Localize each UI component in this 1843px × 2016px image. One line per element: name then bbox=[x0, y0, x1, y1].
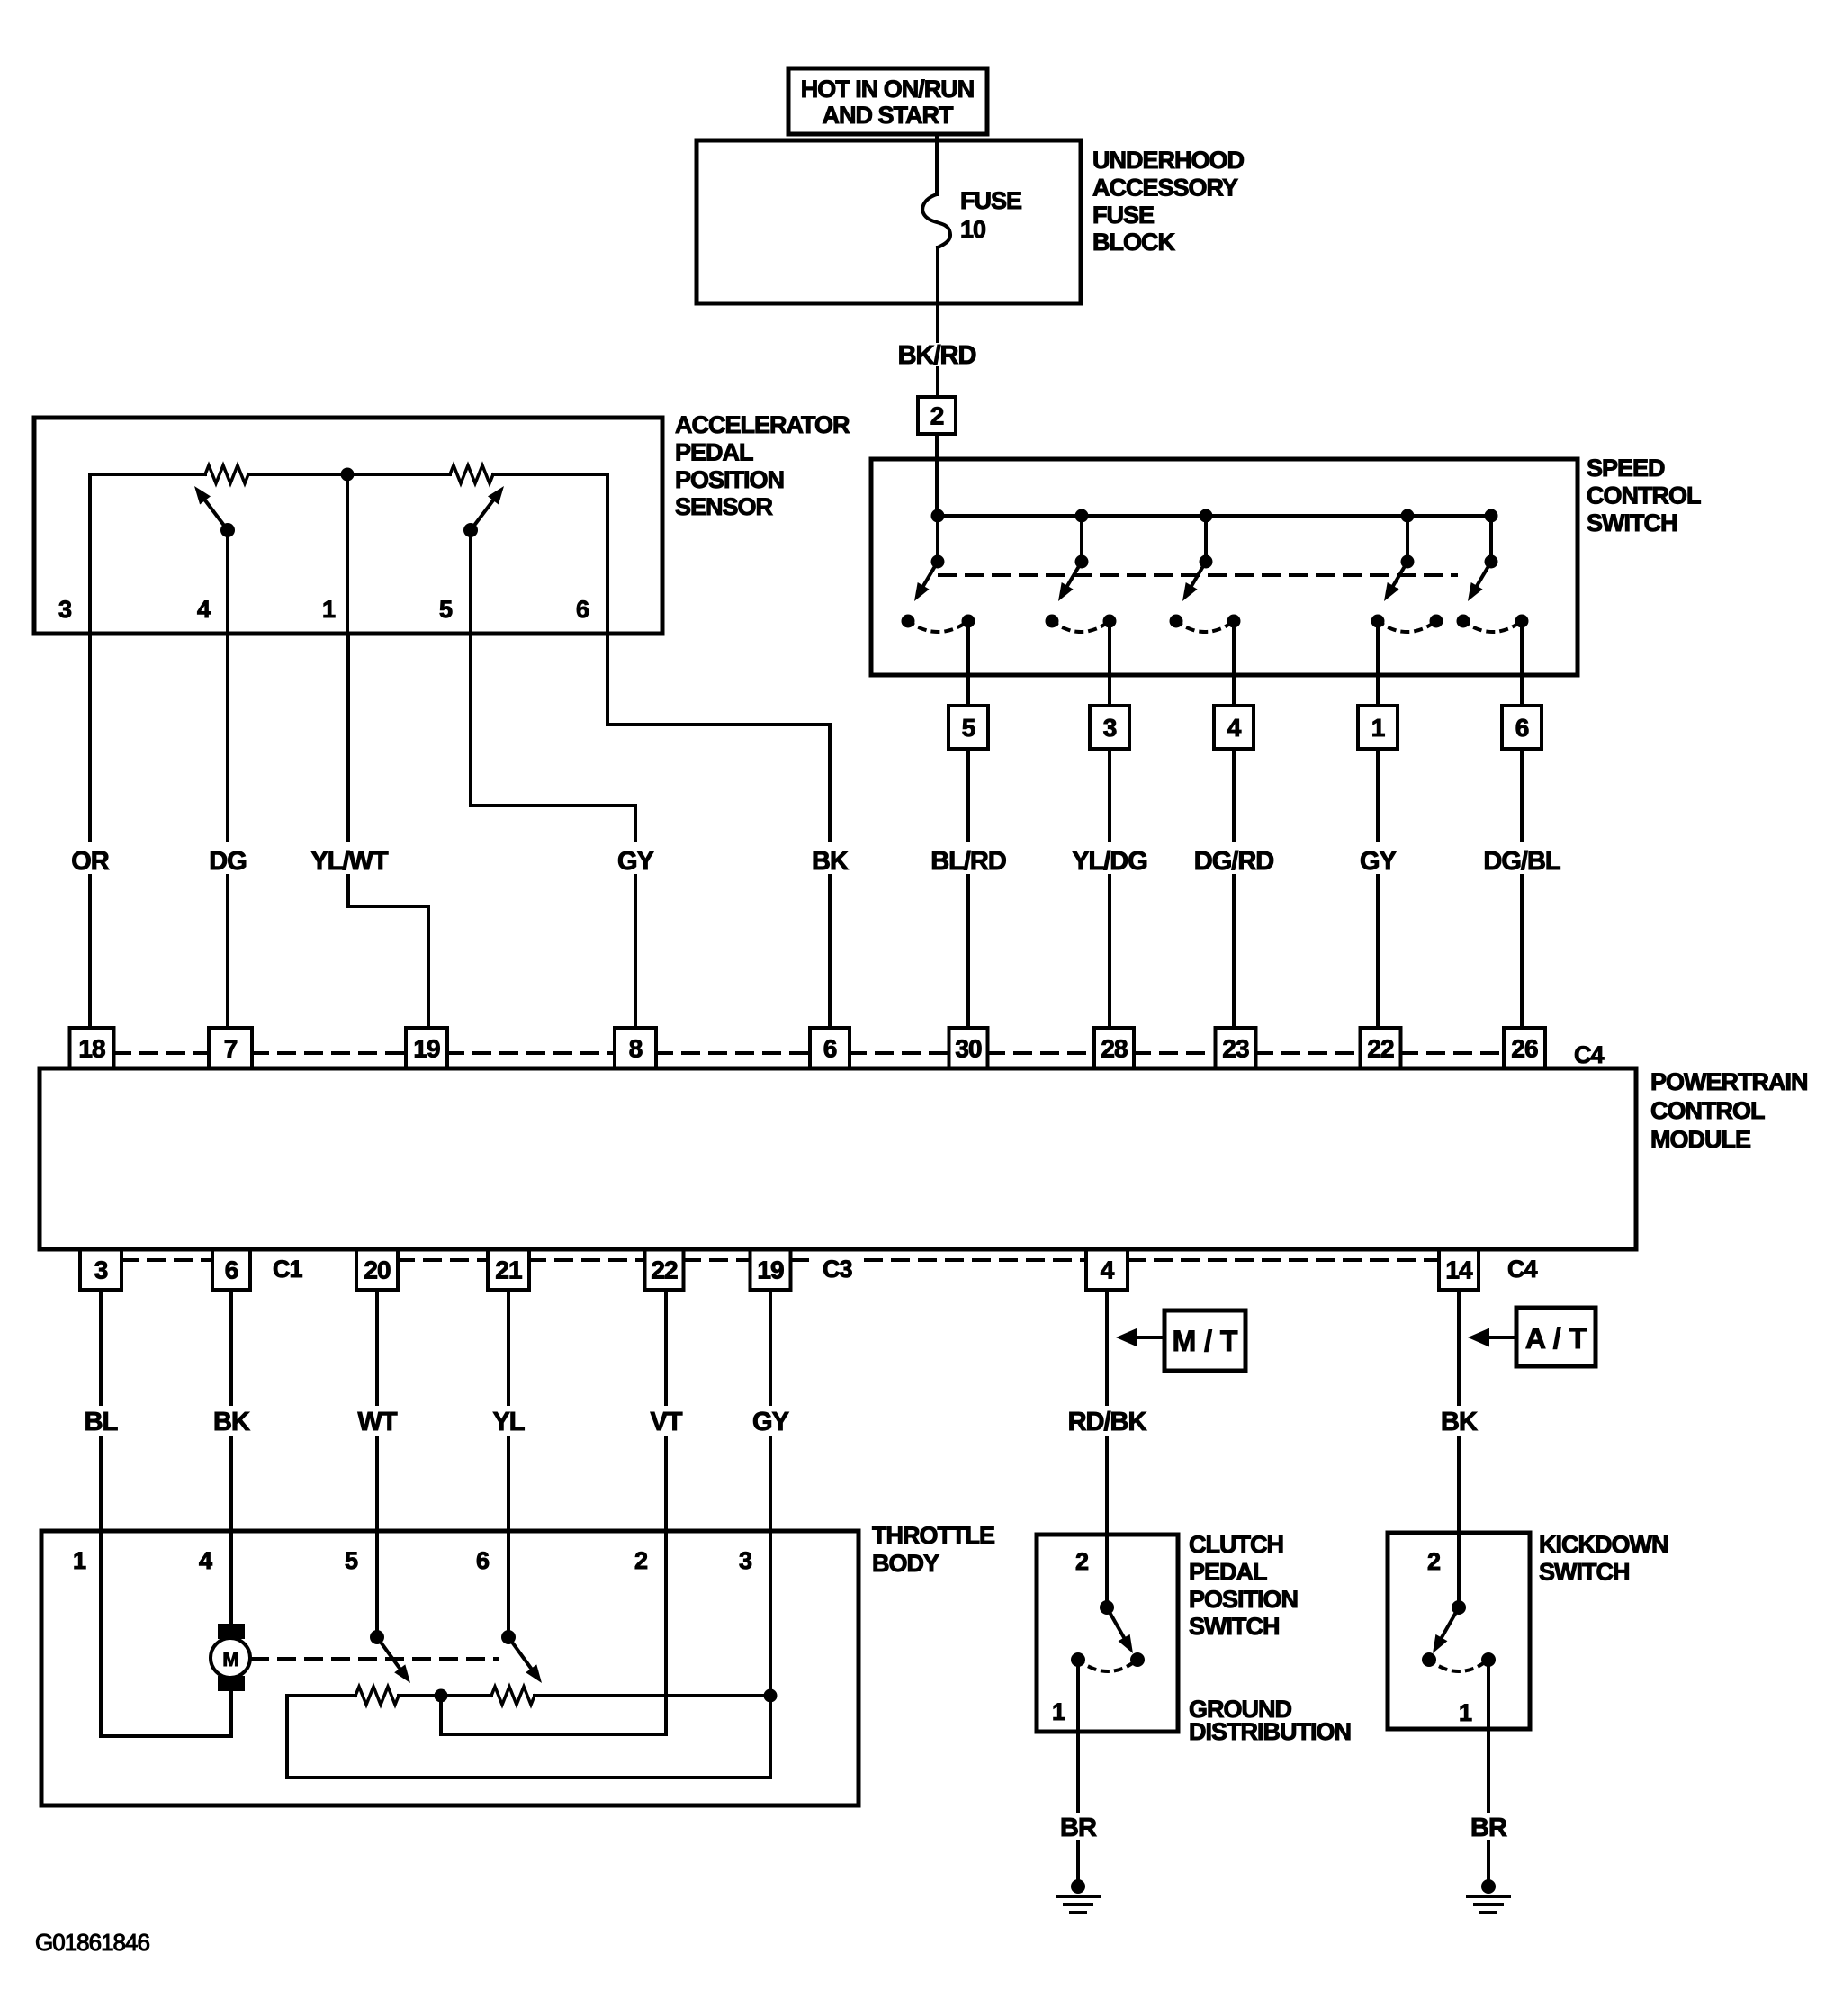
svg-text:1: 1 bbox=[322, 596, 336, 623]
svg-text:BODY: BODY bbox=[872, 1550, 939, 1577]
svg-text:3: 3 bbox=[1103, 714, 1117, 742]
svg-text:7: 7 bbox=[224, 1035, 238, 1063]
svg-text:BR: BR bbox=[1060, 1813, 1097, 1842]
svg-text:5: 5 bbox=[345, 1547, 358, 1574]
svg-text:DG/BL: DG/BL bbox=[1483, 847, 1560, 876]
svg-text:3: 3 bbox=[58, 596, 72, 623]
svg-text:6: 6 bbox=[823, 1035, 837, 1063]
svg-text:MODULE: MODULE bbox=[1650, 1126, 1750, 1153]
svg-text:1: 1 bbox=[73, 1547, 86, 1574]
svg-text:C4: C4 bbox=[1574, 1041, 1604, 1068]
svg-text:6: 6 bbox=[476, 1547, 490, 1574]
svg-text:18: 18 bbox=[78, 1035, 105, 1063]
svg-text:4: 4 bbox=[1227, 714, 1242, 742]
svg-text:GY: GY bbox=[617, 847, 654, 876]
svg-text:PEDAL: PEDAL bbox=[675, 438, 753, 465]
svg-text:DG/RD: DG/RD bbox=[1194, 847, 1274, 876]
svg-text:OR: OR bbox=[71, 847, 110, 876]
svg-text:SENSOR: SENSOR bbox=[675, 493, 773, 520]
svg-text:ACCESSORY: ACCESSORY bbox=[1092, 174, 1238, 201]
svg-text:26: 26 bbox=[1511, 1035, 1538, 1063]
svg-text:GY: GY bbox=[752, 1408, 789, 1436]
svg-text:BK: BK bbox=[1441, 1408, 1478, 1436]
svg-text:CONTROL: CONTROL bbox=[1650, 1097, 1765, 1124]
svg-text:CLUTCH: CLUTCH bbox=[1189, 1531, 1283, 1558]
svg-text:HOT IN ON/RUN: HOT IN ON/RUN bbox=[801, 76, 975, 103]
svg-text:2: 2 bbox=[634, 1547, 647, 1574]
svg-text:THROTTLE: THROTTLE bbox=[872, 1522, 994, 1549]
svg-text:AND START: AND START bbox=[823, 102, 954, 129]
svg-text:BK: BK bbox=[213, 1408, 250, 1436]
svg-text:C4: C4 bbox=[1507, 1255, 1537, 1282]
svg-text:YL/DG: YL/DG bbox=[1072, 847, 1147, 876]
svg-text:KICKDOWN: KICKDOWN bbox=[1539, 1531, 1668, 1558]
svg-text:20: 20 bbox=[364, 1256, 391, 1284]
svg-text:ACCELERATOR: ACCELERATOR bbox=[675, 411, 850, 438]
svg-text:BK/RD: BK/RD bbox=[898, 341, 976, 370]
svg-text:21: 21 bbox=[495, 1256, 522, 1284]
svg-text:WT: WT bbox=[357, 1408, 397, 1436]
svg-text:DG: DG bbox=[209, 847, 247, 876]
svg-text:C1: C1 bbox=[273, 1255, 302, 1282]
svg-text:2: 2 bbox=[930, 402, 944, 430]
svg-text:M: M bbox=[222, 1648, 238, 1670]
svg-text:SPEED: SPEED bbox=[1587, 454, 1665, 481]
svg-text:8: 8 bbox=[629, 1035, 643, 1063]
svg-text:4: 4 bbox=[1101, 1256, 1115, 1284]
svg-text:SWITCH: SWITCH bbox=[1189, 1613, 1279, 1640]
svg-text:3: 3 bbox=[739, 1547, 752, 1574]
svg-text:GY: GY bbox=[1360, 847, 1397, 876]
svg-text:FUSE: FUSE bbox=[1092, 202, 1154, 229]
svg-text:A / T: A / T bbox=[1525, 1322, 1587, 1354]
svg-text:BL/RD: BL/RD bbox=[930, 847, 1006, 876]
svg-text:YL: YL bbox=[492, 1408, 524, 1436]
svg-text:VT: VT bbox=[650, 1408, 682, 1436]
svg-text:UNDERHOOD: UNDERHOOD bbox=[1092, 147, 1245, 174]
svg-text:2: 2 bbox=[1075, 1548, 1088, 1575]
svg-text:BL: BL bbox=[85, 1408, 118, 1436]
svg-text:DISTRIBUTION: DISTRIBUTION bbox=[1189, 1718, 1351, 1745]
svg-text:3: 3 bbox=[94, 1256, 108, 1284]
svg-text:1: 1 bbox=[1459, 1699, 1472, 1726]
svg-text:23: 23 bbox=[1222, 1035, 1249, 1063]
svg-text:CONTROL: CONTROL bbox=[1587, 481, 1701, 508]
svg-text:6: 6 bbox=[576, 596, 589, 623]
svg-text:BK: BK bbox=[812, 847, 849, 876]
svg-text:6: 6 bbox=[1515, 714, 1529, 742]
svg-text:1: 1 bbox=[1371, 714, 1385, 742]
svg-text:19: 19 bbox=[413, 1035, 440, 1063]
svg-text:22: 22 bbox=[1367, 1035, 1394, 1063]
svg-text:PEDAL: PEDAL bbox=[1189, 1558, 1267, 1585]
svg-text:BR: BR bbox=[1470, 1813, 1507, 1842]
svg-text:POSITION: POSITION bbox=[675, 466, 784, 493]
svg-text:SWITCH: SWITCH bbox=[1587, 509, 1677, 536]
svg-text:POSITION: POSITION bbox=[1189, 1586, 1298, 1613]
svg-text:BLOCK: BLOCK bbox=[1092, 229, 1175, 256]
svg-text:19: 19 bbox=[757, 1256, 784, 1284]
svg-text:POWERTRAIN: POWERTRAIN bbox=[1650, 1068, 1808, 1095]
svg-text:6: 6 bbox=[225, 1256, 238, 1284]
svg-text:5: 5 bbox=[962, 714, 975, 742]
svg-text:10: 10 bbox=[960, 216, 985, 243]
svg-text:22: 22 bbox=[651, 1256, 678, 1284]
svg-text:14: 14 bbox=[1445, 1256, 1473, 1284]
svg-text:4: 4 bbox=[197, 596, 211, 623]
svg-text:SWITCH: SWITCH bbox=[1539, 1558, 1629, 1585]
svg-text:5: 5 bbox=[439, 596, 453, 623]
svg-text:M / T: M / T bbox=[1173, 1325, 1238, 1357]
svg-text:FUSE: FUSE bbox=[960, 187, 1021, 214]
svg-text:C3: C3 bbox=[823, 1255, 852, 1282]
svg-text:1: 1 bbox=[1052, 1698, 1065, 1725]
svg-text:G01861846: G01861846 bbox=[35, 1929, 149, 1956]
svg-text:28: 28 bbox=[1101, 1035, 1128, 1063]
svg-text:4: 4 bbox=[199, 1547, 212, 1574]
svg-text:YL/WT: YL/WT bbox=[310, 847, 388, 876]
svg-text:RD/BK: RD/BK bbox=[1068, 1408, 1147, 1436]
svg-text:30: 30 bbox=[955, 1035, 982, 1063]
svg-text:2: 2 bbox=[1427, 1548, 1440, 1575]
